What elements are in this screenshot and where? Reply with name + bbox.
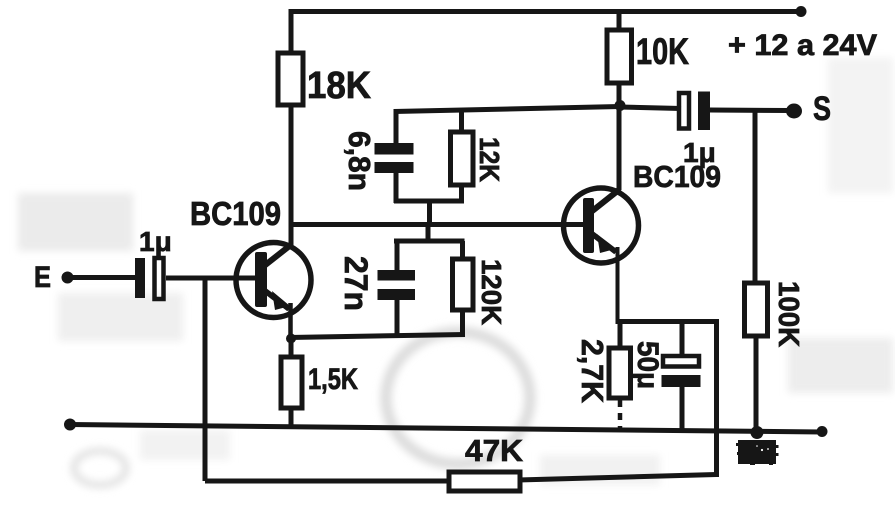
label: 10K bbox=[636, 31, 689, 72]
capacitor 6,8n (bottom plate) bbox=[375, 162, 414, 173]
svg-text:1μ: 1μ bbox=[139, 226, 172, 257]
capacitor 1u input (left plate) bbox=[135, 258, 145, 298]
node: E terminal dot bbox=[62, 272, 74, 284]
svg-text:100K: 100K bbox=[772, 281, 804, 347]
label: 1,5K bbox=[308, 363, 358, 396]
resistor 120K bbox=[453, 259, 474, 310]
resistor 10K bbox=[607, 30, 632, 83]
svg-text:+ 12 a 24V: + 12 a 24V bbox=[728, 29, 877, 62]
label: 27n bbox=[338, 256, 374, 311]
wire: 47K feedback line (right segment) bbox=[518, 475, 717, 481]
wire: 27n top lead bbox=[395, 241, 400, 272]
label: 100K bbox=[772, 281, 804, 347]
capacitor 50u (bottom plate) bbox=[662, 375, 701, 387]
svg-text:18K: 18K bbox=[307, 65, 372, 107]
wire: input cap to Q1 base bbox=[166, 276, 256, 281]
node: supply terminal dot (top right) bbox=[796, 6, 807, 17]
svg-text:27n: 27n bbox=[338, 256, 374, 311]
wire: feedback vertical from emitter node down to 47K line bbox=[714, 319, 719, 477]
node: Q2 collector junction dot bbox=[615, 100, 626, 111]
wire: 50u bottom lead to ground rail bbox=[680, 387, 685, 432]
wire: Q1 emitter to 1,5K bbox=[289, 338, 294, 359]
wire: output node down to 100K bbox=[753, 110, 758, 285]
label: BC109 (Q1) bbox=[190, 195, 281, 232]
transistor Q2 BC109 bbox=[564, 188, 639, 324]
label: E input bbox=[34, 261, 51, 294]
label: 50u bbox=[631, 341, 664, 389]
wire: middle line Q1 collector to Q2 base bbox=[291, 222, 583, 227]
wire: 50u top lead bbox=[680, 321, 685, 357]
capacitor 1u output (left plate) bbox=[679, 93, 689, 129]
resistor 18K bbox=[278, 53, 303, 105]
wire: 6,8n bottom lead bbox=[394, 173, 399, 203]
node: S terminal dot bbox=[786, 104, 802, 119]
node: ground rail left terminal dot bbox=[64, 419, 76, 431]
svg-text:50μ: 50μ bbox=[631, 341, 664, 389]
wire: lower pair bottom bar to Q1 emitter bbox=[289, 335, 465, 338]
svg-text:120K: 120K bbox=[476, 259, 507, 325]
wire: 120K top lead bbox=[460, 241, 465, 261]
svg-text:1,5K: 1,5K bbox=[308, 363, 358, 396]
wire: 27n bottom lead bbox=[395, 300, 400, 338]
label: + 12 a 24V bbox=[728, 29, 877, 62]
node: ground rail right terminal dot bbox=[817, 426, 828, 437]
wire: lower pair top bar bbox=[394, 239, 465, 244]
label: 18K bbox=[307, 65, 372, 107]
ground (chassis) symbol bbox=[736, 440, 779, 465]
wire: upper pair bottom bar bbox=[394, 199, 464, 204]
capacitor 1u output (right plate) bbox=[698, 92, 710, 131]
wire: 12K top lead bbox=[459, 109, 464, 134]
wire: upper pair stub to middle line bbox=[427, 201, 432, 226]
capacitor 50u (top plate) bbox=[663, 356, 699, 367]
capacitor 6,8n (top plate) bbox=[375, 143, 414, 155]
wire: 12K bottom lead bbox=[459, 185, 464, 203]
wire: node to feedback network (upper horizontal) bbox=[394, 107, 620, 112]
wire: 120K bottom lead bbox=[460, 310, 465, 337]
label: BC109 (Q2) bbox=[633, 159, 721, 194]
label: 12K bbox=[474, 137, 505, 182]
label: 6,8n bbox=[342, 131, 377, 191]
wire: 18K top lead bbox=[289, 9, 294, 54]
svg-text:47K: 47K bbox=[465, 433, 524, 468]
svg-text:1μ: 1μ bbox=[683, 137, 716, 168]
svg-text:2,7K: 2,7K bbox=[575, 339, 610, 404]
wire: 2,7K top lead bbox=[618, 321, 623, 350]
label: 2,7K bbox=[575, 339, 610, 404]
wire: bottom ground rail bbox=[70, 425, 822, 433]
wire: node to output capacitor bbox=[620, 107, 681, 109]
svg-text:10K: 10K bbox=[636, 31, 689, 72]
label: 1u output bbox=[683, 137, 716, 168]
label: 47K bbox=[465, 433, 524, 468]
wire: 18K bottom lead down to Q1 collector bbox=[289, 105, 294, 245]
wire: 10K top lead bbox=[617, 9, 622, 31]
wire: lower pair stub from middle line bbox=[426, 224, 431, 243]
node: Q1 emitter junction dot bbox=[286, 334, 296, 344]
resistor 47K bbox=[449, 472, 520, 491]
resistor 2,7K bbox=[609, 348, 631, 398]
capacitor 1u input (right plate) bbox=[155, 258, 164, 299]
svg-text:S: S bbox=[813, 90, 831, 128]
wire: 100K bottom lead to ground rail bbox=[754, 336, 759, 433]
resistor 100K bbox=[745, 283, 768, 336]
wire: output cap to S terminal bbox=[710, 108, 789, 114]
resistor 1,5K bbox=[281, 357, 302, 408]
wire: top supply rail bbox=[291, 9, 801, 14]
resistor 12K bbox=[451, 132, 474, 185]
svg-text:BC109: BC109 bbox=[190, 195, 281, 232]
capacitor 27n (top plate) bbox=[378, 270, 416, 281]
capacitor 27n (bottom plate) bbox=[378, 289, 416, 300]
wire: 6,8n top lead bbox=[394, 109, 399, 145]
wire: emitter node horizontal line bbox=[619, 319, 717, 324]
wire: Q2 collector up to node bbox=[617, 103, 622, 190]
wire: 10K bottom lead bbox=[617, 83, 622, 103]
wire: 2,7K dashed bottom lead bbox=[618, 400, 623, 428]
wire: 1,5K bottom lead to ground rail bbox=[289, 408, 294, 428]
wire: E terminal to input cap bbox=[71, 275, 136, 280]
label: S output bbox=[813, 90, 831, 128]
node: ground rail junction dot bbox=[751, 426, 764, 439]
svg-text:12K: 12K bbox=[474, 137, 505, 182]
svg-text:6,8n: 6,8n bbox=[342, 131, 377, 191]
label: 120K bbox=[476, 259, 507, 325]
transistor Q1 BC109 bbox=[236, 243, 311, 342]
svg-text:E: E bbox=[34, 261, 51, 294]
wire: 47K feedback line (left segment) bbox=[205, 479, 451, 484]
label: 1u input bbox=[139, 226, 172, 257]
wire: feedback branch down from base wire bbox=[203, 277, 208, 481]
